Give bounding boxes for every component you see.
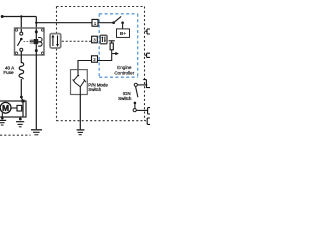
node splice [20, 96, 23, 99]
switch blade [114, 16, 122, 22]
connector tab IGN feed [143, 80, 150, 88]
P/N switch internals [73, 70, 86, 95]
B+ box [117, 29, 130, 38]
ground G2 solenoid [16, 117, 24, 127]
wire relay contact drop [20, 17, 22, 33]
svg-text:Controller: Controller [114, 71, 134, 76]
connector tab right top [145, 29, 151, 34]
relay contact terminal lower [20, 48, 23, 51]
wire IGN bottom [136, 109, 147, 111]
wire pin2 to P/N switch [78, 61, 92, 70]
wire IGN top feed [137, 84, 147, 86]
svg-text:Engine: Engine [117, 65, 132, 70]
switch pivot dot [112, 21, 115, 24]
svg-text:Fuse: Fuse [3, 70, 14, 75]
wire P/N switch to ground [79, 95, 81, 130]
IGN switch [133, 83, 138, 111]
wire solenoid stub [22, 107, 23, 109]
wire battery feed top [2, 16, 36, 18]
wire motor to solenoid [11, 107, 17, 109]
wire pin1 to B+ switch [98, 22, 114, 24]
wire pin2 into controller [98, 54, 112, 61]
relay contact terminal upper [20, 32, 23, 35]
relay blade [17, 39, 21, 46]
relay blade pivot [20, 38, 23, 41]
junction coil feed [35, 22, 37, 24]
engine controller blue dashed box [99, 14, 138, 77]
ground G1 motor [0, 113, 6, 125]
relay coil [30, 38, 42, 47]
wire to B+ [122, 23, 124, 29]
coil terminal dot bottom [35, 49, 38, 52]
wire coil through relay [35, 29, 37, 130]
ground G4 P/N switch [77, 130, 85, 135]
starter assembly box [0, 101, 26, 117]
wire coil feed drop [35, 17, 37, 29]
svg-text:Switch: Switch [88, 87, 101, 92]
node starter feed terminal [21, 100, 24, 103]
switch terminal dot [121, 21, 124, 24]
motor M1 [0, 102, 11, 113]
ground G3 relay coil [31, 130, 42, 135]
pin 2 box [92, 56, 98, 62]
connector tab IGN out [148, 108, 150, 114]
junction relay contact [20, 15, 22, 17]
pin 3 box [92, 36, 98, 43]
pin 1 box [92, 19, 98, 26]
P/N mode switch box [71, 70, 88, 95]
fuse F1 40A [19, 62, 24, 79]
solenoid [17, 105, 22, 111]
connector C2 [100, 35, 107, 44]
wire relay output to fuse [20, 51, 22, 63]
wire to controller pin 1 [36, 22, 92, 24]
wire fuse to starter [21, 79, 23, 117]
connector tab bottom right [147, 118, 150, 124]
svg-text:M: M [2, 103, 9, 113]
node B+ feed dot [1, 15, 4, 18]
connector tab right mid [145, 53, 151, 57]
dashed ground wire bottom left [0, 134, 31, 136]
svg-text:Switch: Switch [118, 96, 132, 101]
svg-text:B+: B+ [120, 31, 126, 37]
connector C1 [50, 34, 61, 48]
coil terminal dot top [35, 30, 38, 33]
harness module dashed box [57, 7, 147, 121]
relay K1 box [15, 28, 45, 55]
dashed wire C1 to controller [62, 40, 92, 42]
relay corner terminals [15, 29, 44, 55]
relay linkage dashed [24, 41, 32, 43]
resistor / driver in controller [109, 41, 119, 56]
